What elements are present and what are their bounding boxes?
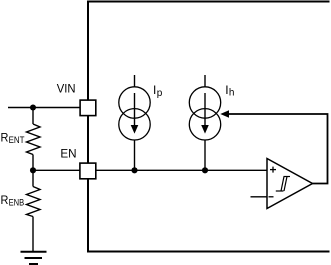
label R_ENB [1, 193, 25, 209]
wire EN node to pin [33, 169, 80, 171]
node VIN junction [30, 104, 36, 110]
wire VIN external [8, 107, 80, 109]
resistor R_ENT [27, 124, 41, 155]
hysteresis symbol [276, 177, 290, 192]
IC box outline U1 [88, 2, 330, 252]
label minus input [269, 196, 274, 198]
label R_ENT [1, 130, 25, 146]
svg-text:p: p [157, 88, 163, 99]
wire node to R_ENT [32, 108, 34, 125]
resistor R_ENB [27, 187, 41, 217]
node EN-Ih junction [202, 167, 208, 173]
wire minus input stub [251, 196, 268, 198]
wire R_ENB to ground [32, 217, 34, 252]
wire EN internal [96, 169, 267, 171]
pin EN [80, 163, 96, 179]
comparator U2 [267, 159, 313, 209]
node EN junction [30, 167, 36, 173]
label Ip [153, 83, 163, 99]
current source Ih [189, 75, 220, 170]
ground [21, 252, 47, 264]
wire EN node to R_ENB [32, 170, 34, 186]
arrowhead feedback into Ih [220, 110, 229, 118]
svg-text:VIN: VIN [57, 81, 76, 95]
pin VIN [80, 100, 96, 116]
label EN [60, 146, 76, 160]
label plus input [270, 167, 276, 173]
svg-text:h: h [229, 87, 235, 98]
wire comparator output feedback [228, 114, 328, 184]
svg-text:ENB: ENB [9, 198, 25, 209]
svg-text:ENT: ENT [9, 135, 25, 146]
node EN-Ip junction [131, 167, 137, 173]
svg-text:R: R [1, 130, 9, 144]
current source Ip [119, 75, 150, 170]
label Ih [225, 83, 234, 98]
label VIN [57, 81, 76, 95]
svg-text:R: R [1, 193, 9, 207]
svg-text:EN: EN [60, 146, 76, 160]
wire R_ENT to EN node [32, 155, 34, 171]
